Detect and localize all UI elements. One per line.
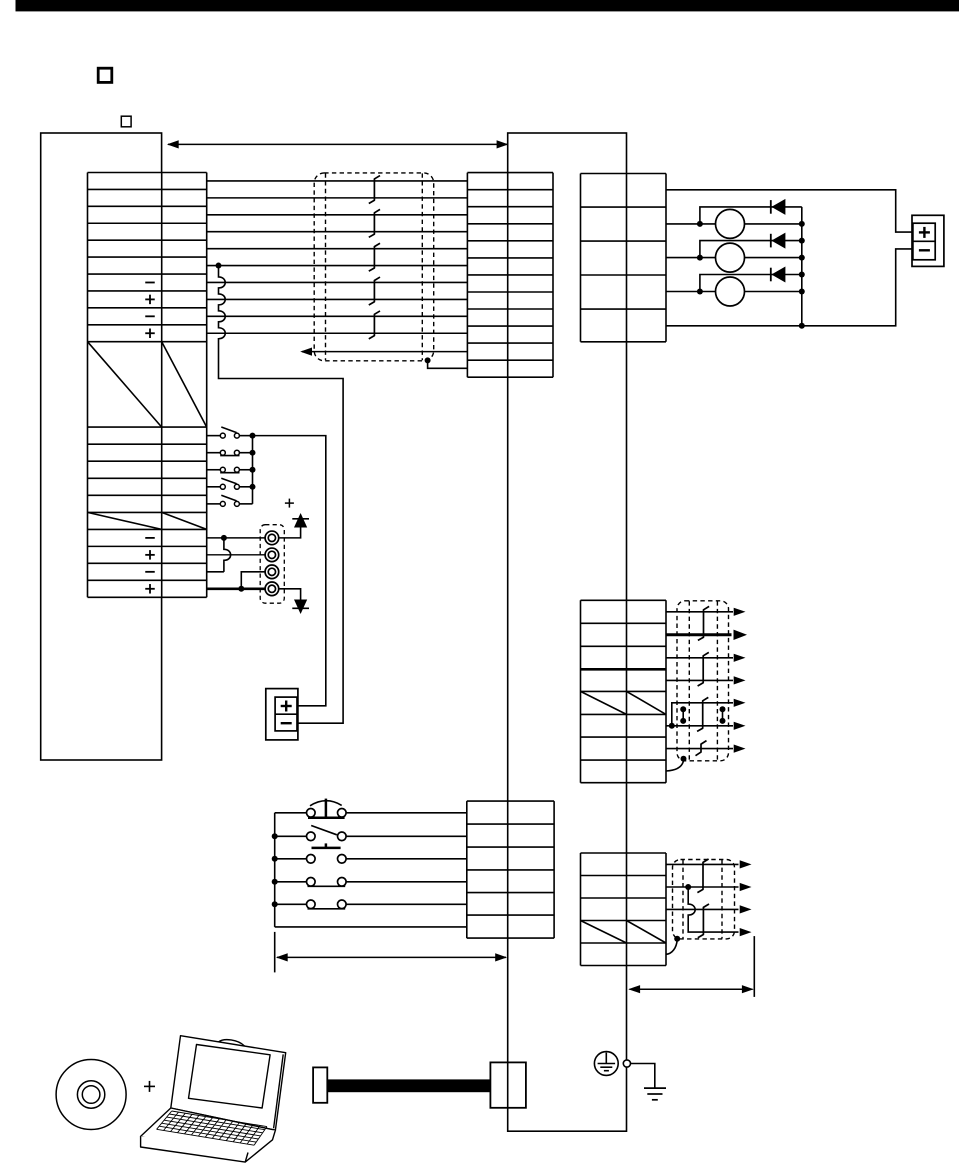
dimension arrow lower-right: [753, 936, 755, 997]
input switch bus: [252, 436, 254, 504]
pushbutton symbol row3: [312, 847, 341, 850]
link MO1 to LG (jump-over): [224, 538, 231, 572]
power connector grid: [581, 174, 667, 342]
relay output wires 1: [666, 611, 733, 613]
pin jack 4: [265, 582, 279, 596]
shield drain to SD pin: [425, 357, 431, 363]
pin jack 2: [265, 548, 279, 562]
charge lamp battery: [912, 215, 944, 266]
junction dot LG row: [216, 263, 222, 269]
protective earth symbol: [594, 1052, 618, 1076]
cable dashed box 1: [677, 601, 729, 761]
twisted pair symbols: [369, 176, 380, 204]
relay pair branch 2: [666, 886, 739, 888]
diode bus: [801, 207, 803, 326]
dimension arrow controller-amplifier: [168, 143, 507, 145]
serial connector on amplifier: [490, 1062, 526, 1107]
diode branch 1: [700, 207, 802, 224]
PE terminal: [623, 1060, 630, 1067]
diode branch 2: [700, 241, 802, 258]
crossed-out rows (omitted signals) upper: [88, 342, 162, 427]
plus label: [285, 502, 294, 504]
shield curve box 1: [666, 761, 684, 771]
diode branch 3: [700, 275, 802, 292]
-10V output arrow: [294, 600, 307, 615]
NC bar row4: [308, 885, 346, 887]
section marker square 1: [98, 68, 112, 82]
pin jack 1: [265, 531, 279, 545]
bottom wire to battery minus: [666, 249, 912, 326]
junction pair dots right: [720, 706, 726, 712]
lower input bus: [274, 813, 276, 927]
polarity labels rows 7-10: [145, 281, 155, 283]
controller I/O connector grid: [88, 173, 207, 598]
lower input wire 6: [275, 926, 467, 928]
lower input wire 5: [275, 903, 307, 905]
junction pair dots left: [680, 706, 686, 712]
lower input wire 2: [275, 835, 307, 837]
earth ground: [644, 1087, 666, 1089]
wire bus to battery plus: [253, 436, 326, 706]
shielded cable (dashed): [314, 173, 434, 361]
input switch SW4: [207, 486, 221, 488]
lamp wire 1: [666, 223, 802, 225]
contact symbols box 2: [697, 859, 708, 893]
section marker square 2: [121, 116, 131, 127]
relay pair branch: [669, 723, 675, 729]
setup software CD: [56, 1060, 126, 1130]
lower input wire 1: [275, 812, 307, 814]
lamp wire 3: [666, 291, 802, 293]
wire pin4 to -10V arrow: [279, 589, 301, 601]
NO contact slash row2: [311, 826, 337, 835]
wire LG to battery minus (with jump-overs): [219, 266, 344, 724]
laptop body: [141, 1036, 286, 1162]
dimension arrow lower-left: [277, 956, 506, 958]
input switch SW5: [207, 503, 221, 505]
wires controller to CN1: [207, 180, 468, 182]
cable dashed box 2: [673, 860, 735, 939]
analog monitor wire MO2: [207, 554, 265, 556]
crossed-out row grid 2: [581, 921, 627, 944]
shield curve box 2: [666, 940, 677, 954]
lamp 3: [716, 277, 745, 306]
lower input wire 4: [275, 881, 307, 883]
cable end connector: [313, 1067, 327, 1102]
lamp wire 2: [666, 257, 802, 259]
lamp 2: [716, 243, 745, 272]
relay connector grid 1: [581, 600, 667, 782]
polarity labels analog outputs: [145, 537, 155, 539]
NC bar row5: [308, 908, 346, 910]
analog ground wire (bold): [207, 587, 265, 590]
controller box: [41, 133, 162, 760]
plus sign: [144, 1085, 155, 1087]
analog monitor wire MO1: [207, 537, 265, 539]
wire LG stub row: [207, 571, 224, 573]
external battery box: [266, 689, 298, 740]
crossed-out row (omitted signals) lower: [88, 512, 162, 529]
pin jack 3: [265, 565, 279, 579]
input switch SW3: [207, 469, 221, 471]
+10V output arrow: [294, 513, 307, 528]
lower input wire 3: [275, 858, 307, 860]
connector CN1 grid: [467, 173, 553, 378]
emergency stop button symbol: [308, 816, 345, 819]
dimension tick lower-left: [274, 932, 276, 973]
communication cable: [327, 1079, 490, 1092]
connector CN1B grid: [467, 801, 554, 938]
crossed-out rows grid 1...: [581, 691, 627, 714]
top title bar: [16, 0, 959, 11]
wire L11 to battery plus: [666, 190, 912, 232]
laptop keyboard keys: [157, 1111, 267, 1145]
contact symbols box 1: [698, 606, 709, 640]
earth wire: [631, 1064, 655, 1089]
link to pin 3: [241, 572, 265, 589]
input switch SW2: [207, 452, 221, 454]
wire pin1 to +10V arrow: [279, 528, 301, 538]
relay output wires 2: [666, 863, 739, 865]
shield arrow: [302, 351, 467, 353]
pin jack dashed outline: [260, 525, 284, 604]
relay connector grid 2: [581, 853, 667, 966]
lamp 1: [716, 209, 745, 238]
input switch SW1: [207, 435, 221, 437]
servo amplifier outline: [508, 133, 627, 1131]
